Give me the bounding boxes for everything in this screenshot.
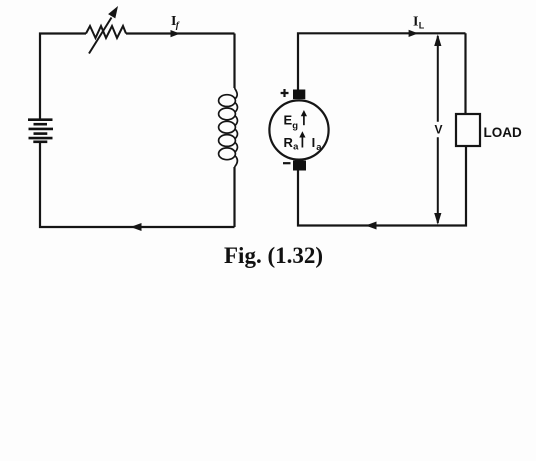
voltmeter arrow V (double headed) xyxy=(434,34,441,225)
wire: left circuit top segment (battery + to rheostat) xyxy=(40,34,86,119)
svg-text:a: a xyxy=(316,142,322,153)
wire: left circuit right vertical (coil to bottom corner) xyxy=(233,167,235,227)
rheostat (variable field resistor) zigzag xyxy=(86,26,126,38)
label Eg with rising arrow xyxy=(284,110,308,132)
generator brush terminal (bottom, -) xyxy=(293,161,306,171)
wire: left circuit bottom segment with return current arrow xyxy=(131,223,235,231)
label IL xyxy=(413,15,425,31)
svg-text:Fig. (1.32): Fig. (1.32) xyxy=(224,243,323,268)
wire: generator top lead to top wire xyxy=(298,33,466,89)
load resistor box xyxy=(456,114,480,146)
label If xyxy=(171,14,180,31)
label V xyxy=(435,123,443,137)
rheostat adjustment arrow xyxy=(89,6,118,54)
battery (3-cell) xyxy=(28,120,53,142)
wire: right circuit right vertical lower (load to bottom) xyxy=(464,146,467,226)
label LOAD xyxy=(484,125,522,140)
wire: left circuit right vertical (top part to coil) xyxy=(233,34,235,89)
wire: right circuit right vertical upper (to load) xyxy=(464,33,466,114)
wire: left circuit lower-left segment (battery - to bottom corner) xyxy=(40,143,131,227)
svg-text:I: I xyxy=(312,135,316,150)
generator armature circle U1 xyxy=(269,100,328,159)
caption Fig. (1.32) xyxy=(224,243,323,268)
generator brush terminal (top, +) xyxy=(293,90,305,100)
current arrow IL on top wire xyxy=(409,30,419,37)
field coil (inductor) xyxy=(219,88,238,167)
current arrow If on top wire xyxy=(171,30,181,37)
svg-text:I: I xyxy=(413,15,418,30)
svg-text:a: a xyxy=(293,142,299,153)
minus terminal mark xyxy=(283,162,291,164)
svg-text:g: g xyxy=(292,121,298,132)
svg-text:f: f xyxy=(176,21,180,31)
wire: right circuit bottom segment with return current arrow xyxy=(366,222,466,230)
svg-text:E: E xyxy=(284,112,293,127)
label Ra with arrow and Ia xyxy=(284,131,323,153)
wire: top wire from rheostat to top-right corner xyxy=(126,32,235,34)
svg-text:V: V xyxy=(435,123,443,137)
svg-text:L: L xyxy=(419,21,425,31)
svg-text:R: R xyxy=(284,135,294,150)
svg-text:LOAD: LOAD xyxy=(484,125,522,140)
wire: generator bottom lead to bottom wire xyxy=(298,171,366,226)
plus terminal mark xyxy=(281,89,289,97)
